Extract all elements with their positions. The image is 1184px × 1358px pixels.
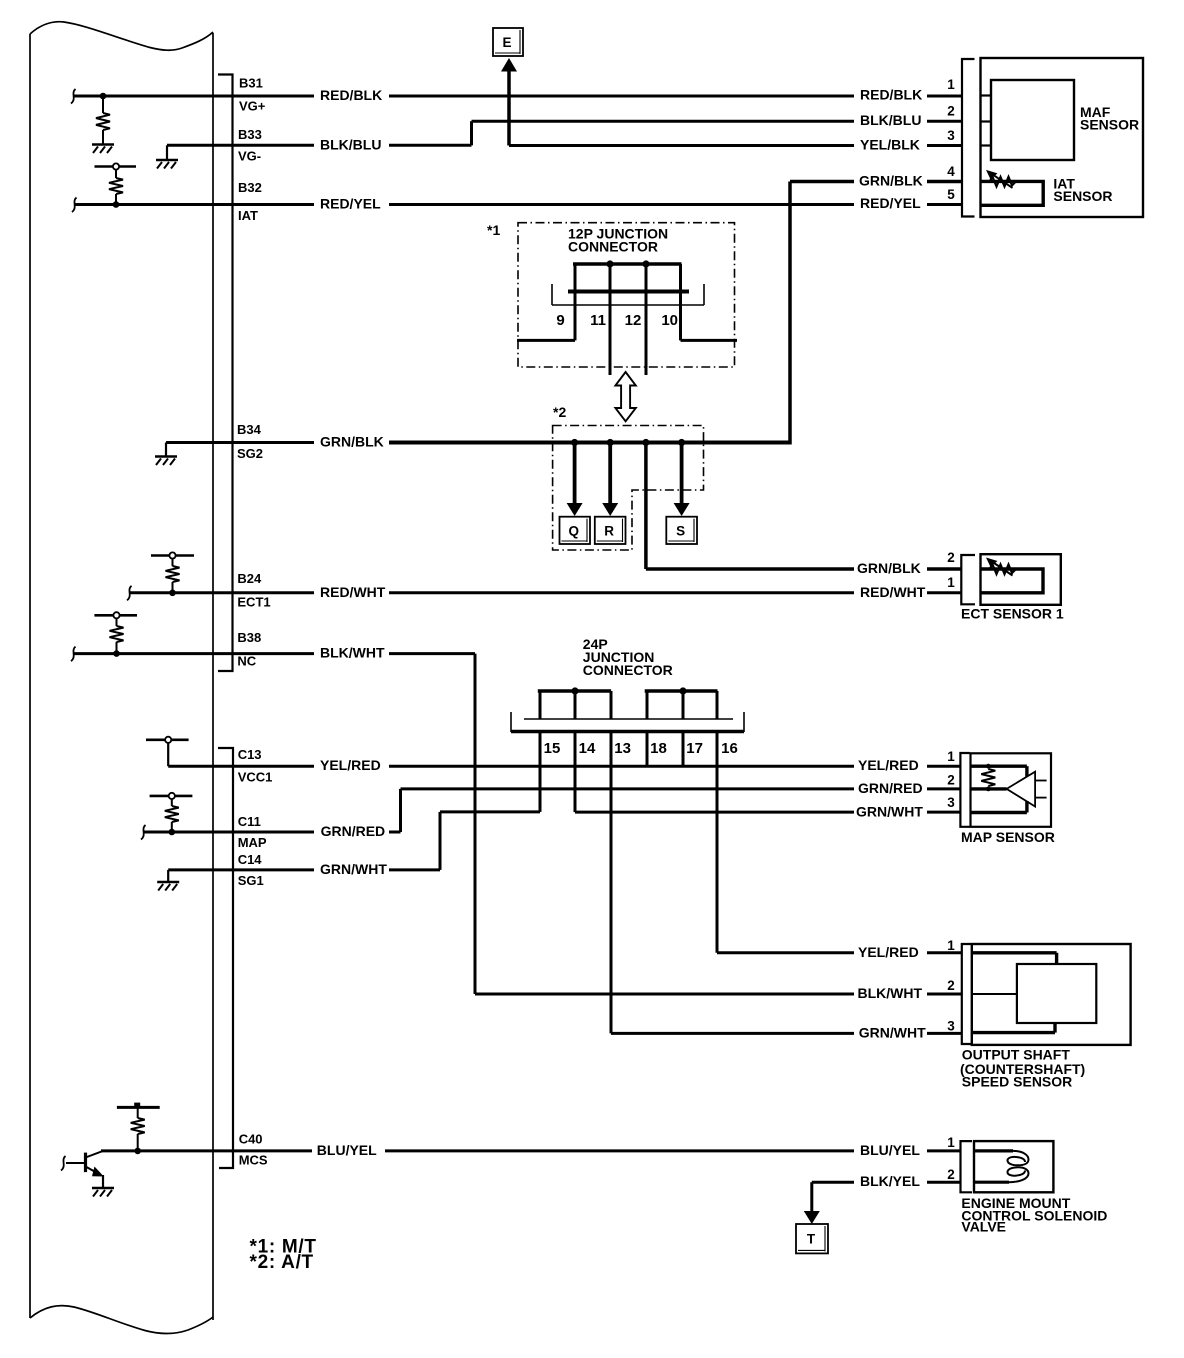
wire RED/BLK B31 to MAF pin 1 [73, 95, 961, 98]
svg-text:RED/WHT: RED/WHT [320, 584, 386, 600]
svg-text:*2: *2 [553, 404, 566, 420]
connector bracket solenoid [961, 1141, 973, 1192]
node rail pin 12 [642, 260, 649, 267]
svg-text:VG-: VG- [238, 149, 261, 164]
svg-text:9: 9 [556, 312, 564, 329]
12P pin 10 upper stem [679, 264, 682, 292]
24P pin 16 upper stem [716, 691, 719, 719]
ECT sensor 1 box [981, 554, 1061, 605]
svg-text:B38: B38 [237, 630, 261, 645]
internal 12V supply MCS [117, 1103, 160, 1108]
svg-text:BLK/WHT: BLK/WHT [320, 645, 385, 661]
svg-text:3: 3 [947, 128, 955, 143]
24P pin 15 lower stem [539, 733, 542, 812]
MAP internal resistor [981, 764, 995, 792]
svg-text:17: 17 [686, 740, 703, 757]
24P pin 18 upper stem [646, 691, 649, 719]
svg-text:1: 1 [947, 575, 955, 590]
node rail pin 17 [679, 687, 686, 694]
24P left top rail [538, 689, 611, 693]
transistor MCS driver [61, 1151, 104, 1188]
MAP internal supply path [971, 766, 1027, 777]
connector box S [666, 517, 697, 544]
svg-text:MCS: MCS [239, 1153, 268, 1168]
double arrow M/T-A/T swap [615, 372, 635, 421]
op-amp output stubs [1035, 781, 1047, 798]
ground SG2 link [165, 443, 167, 457]
wire YEL/BLK to MAF pin 3 [509, 144, 961, 147]
svg-text:ECT SENSOR 1: ECT SENSOR 1 [961, 606, 1064, 622]
24P pin 17 lower stem [682, 733, 685, 766]
svg-text:IAT: IAT [238, 208, 258, 223]
arrow to E [501, 58, 517, 72]
wire break slash B24 [127, 586, 132, 601]
wire GRN/RED C11 to MAP pin 2 [143, 789, 960, 832]
svg-text:10: 10 [661, 312, 678, 329]
ECM/PCM torn-edge strip [30, 22, 213, 1334]
MAF sensor outer box [981, 58, 1144, 217]
svg-text:1: 1 [947, 938, 955, 953]
node NC resistor tap [113, 650, 120, 657]
svg-text:*1: *1 [487, 222, 500, 238]
24P pin 14 lower stem [574, 733, 577, 812]
connector bracket MAP [960, 753, 969, 827]
svg-text:CONNECTOR: CONNECTOR [568, 239, 658, 255]
resistor ECT1 pull-up [166, 559, 180, 593]
label OUTPUT SHAFT (COUNTERSHAFT) SPEED SENSOR [960, 1046, 1085, 1089]
24P pin 15 upper stem [539, 691, 542, 719]
ECU connector bracket (C rows) [218, 748, 233, 1168]
svg-text:YEL/RED: YEL/RED [320, 757, 381, 773]
ground reference box T [796, 1224, 828, 1253]
node rail pin 14 [571, 687, 578, 694]
IAT sensor element [981, 181, 1043, 205]
op-amp MAP [1007, 772, 1036, 807]
svg-text:YEL/BLK: YEL/BLK [860, 137, 920, 153]
wire GRN/WHT C14 [168, 812, 540, 870]
svg-text:2: 2 [947, 1167, 955, 1182]
internal 5V supply MAP [150, 795, 193, 798]
node bus S tap [678, 439, 685, 446]
svg-text:E: E [502, 35, 511, 50]
12P connector top rail [573, 262, 682, 266]
wire from 12P pin 9 [517, 339, 575, 342]
node bus R tap [607, 439, 614, 446]
svg-text:ECT1: ECT1 [237, 594, 270, 609]
thermistor symbol IAT [989, 177, 1015, 187]
svg-text:BLK/YEL: BLK/YEL [860, 1173, 920, 1189]
24P pin 18 lower stem [646, 733, 649, 766]
svg-text:3: 3 [947, 1019, 955, 1034]
label 12P JUNCTION CONNECTOR [568, 226, 668, 255]
wire BLK/YEL solenoid pin 2 to T [812, 1182, 961, 1213]
ground reference box E [493, 28, 523, 56]
wire GRN/BLK B34 bus [166, 441, 790, 444]
svg-text:4: 4 [947, 164, 955, 179]
svg-text:RED/BLK: RED/BLK [320, 87, 382, 103]
svg-text:T: T [807, 1232, 816, 1247]
ground SG2 [155, 455, 177, 458]
svg-text:18: 18 [650, 740, 667, 757]
wire BLK/BLU B33 to MAF pin 2 [213, 121, 961, 145]
ground VG- [156, 159, 178, 162]
ECU connector bracket (B rows) [218, 75, 233, 672]
connector bracket MAF [962, 59, 975, 217]
arrow to S [674, 443, 690, 517]
svg-text:VCC1: VCC1 [238, 770, 273, 785]
24P pin 13 upper stem [610, 691, 613, 719]
svg-text:VG+: VG+ [239, 99, 266, 114]
svg-text:B34: B34 [237, 422, 262, 437]
label MAF SENSOR [1080, 104, 1139, 133]
svg-text:12: 12 [625, 312, 642, 329]
junction connector *1 (M/T) dash-dot outline [518, 223, 735, 367]
MAF pin 3 stub [981, 144, 992, 146]
ground SG1 [157, 881, 179, 884]
svg-text:*2: A/T: *2: A/T [250, 1252, 314, 1273]
svg-text:CONNECTOR: CONNECTOR [583, 662, 673, 678]
svg-text:C13: C13 [238, 747, 262, 762]
ground VG+ [92, 143, 114, 146]
label ENGINE MOUNT CONTROL SOLENOID VALVE [961, 1195, 1107, 1235]
svg-text:RED/BLK: RED/BLK [860, 87, 922, 103]
node VG+ resistor tap [100, 93, 107, 100]
svg-text:3: 3 [947, 795, 955, 810]
thermistor symbol ECT [989, 565, 1015, 575]
arrow to T [804, 1211, 820, 1224]
svg-text:GRN/RED: GRN/RED [858, 780, 923, 796]
ECT thermistor element [981, 569, 1044, 593]
svg-text:NC: NC [237, 654, 256, 669]
junction connector *2 (A/T) dash-dot outline [553, 426, 704, 551]
svg-text:GRN/BLK: GRN/BLK [857, 560, 921, 576]
svg-text:2: 2 [947, 104, 955, 119]
wire break slash B31 [71, 89, 76, 104]
wire break slash C11 [141, 825, 146, 840]
internal 5V supply NC [94, 614, 137, 617]
svg-text:GRN/WHT: GRN/WHT [859, 1024, 926, 1040]
MAP sensor box [971, 753, 1052, 827]
svg-text:GRN/WHT: GRN/WHT [320, 861, 387, 877]
internal 5V supply IAT [95, 165, 137, 168]
12P connector bar [552, 284, 704, 305]
wire GRN/BLK to ECT sensor pin 2 [646, 443, 961, 570]
svg-text:5: 5 [947, 187, 955, 202]
node bus Q tap [571, 439, 578, 446]
svg-text:C11: C11 [238, 814, 261, 829]
24P pin 13 lower stem [610, 733, 613, 1033]
wire YEL/RED C13 to MAP pin 1 [213, 765, 960, 768]
svg-text:BLK/WHT: BLK/WHT [858, 985, 923, 1001]
svg-text:B33: B33 [238, 127, 262, 142]
svg-text:C14: C14 [238, 852, 263, 867]
wire VG- to ground [167, 145, 213, 160]
wire break slash B38 [71, 647, 76, 662]
svg-text:2: 2 [947, 978, 955, 993]
svg-text:GRN/BLK: GRN/BLK [859, 173, 923, 189]
node MAP resistor tap [169, 829, 176, 836]
wire GRN/WHT to output shaft pin 3 [611, 1032, 962, 1035]
MAF pin 1 stub [981, 94, 992, 96]
svg-text:11: 11 [590, 312, 606, 329]
resistor VG+ pull-down [96, 96, 110, 144]
svg-text:BLK/BLU: BLK/BLU [320, 136, 381, 152]
svg-text:BLK/BLU: BLK/BLU [860, 112, 921, 128]
connector box R [595, 517, 626, 544]
MAF pin 2 stub [981, 120, 992, 122]
wire break slash B32 [72, 198, 77, 213]
wire GRN/BLK riser to MAF pin 4 [790, 182, 961, 445]
svg-text:B24: B24 [237, 571, 262, 586]
svg-text:2: 2 [947, 550, 955, 565]
svg-text:1: 1 [947, 749, 955, 764]
24P right top rail [645, 689, 718, 693]
wire BLK/WHT B38 [73, 654, 962, 994]
svg-text:1: 1 [947, 77, 955, 92]
svg-text:RED/WHT: RED/WHT [860, 584, 926, 600]
svg-text:OUTPUT SHAFT: OUTPUT SHAFT [962, 1046, 1071, 1062]
node MCS resistor tap [134, 1148, 141, 1155]
wire GRN/WHT to MAP pin 3 [575, 811, 960, 814]
node bus ECT tap [642, 439, 649, 446]
svg-text:14: 14 [579, 740, 596, 757]
svg-text:BLU/YEL: BLU/YEL [317, 1142, 377, 1158]
svg-text:GRN/WHT: GRN/WHT [856, 804, 923, 820]
output shaft pin 1 internal path [972, 953, 1057, 964]
label 24P JUNCTION CONNECTOR [583, 636, 673, 678]
internal 5V supply VCC1 [146, 738, 189, 741]
svg-text:BLU/YEL: BLU/YEL [860, 1142, 920, 1158]
MAF sensor inner element [991, 80, 1074, 160]
svg-text:GRN/BLK: GRN/BLK [320, 434, 384, 450]
svg-text:YEL/RED: YEL/RED [858, 944, 919, 960]
wire BLU/YEL C40 to solenoid pin 1 [101, 1149, 961, 1152]
wire from 12P pin 10 [681, 339, 738, 342]
connector bracket ECT [961, 555, 975, 604]
12P pin 11 lower stem [609, 293, 612, 375]
svg-text:C40: C40 [239, 1132, 263, 1147]
node ECT1 resistor tap [169, 590, 176, 597]
arrow to R [602, 443, 618, 517]
12P pin 12 lower stem [645, 293, 648, 375]
arrow to Q [567, 443, 583, 517]
svg-text:RED/YEL: RED/YEL [860, 195, 921, 211]
label IAT SENSOR [1053, 176, 1112, 204]
connector box Q [560, 517, 591, 544]
svg-text:1: 1 [947, 1135, 955, 1150]
svg-text:MAP: MAP [238, 835, 267, 850]
svg-text:S: S [676, 523, 685, 538]
wire RED/YEL B32 to MAF pin 5 [74, 203, 961, 206]
wire YEL/RED to output shaft pin 1 [717, 951, 962, 954]
svg-text:16: 16 [721, 740, 738, 757]
ground SG1 link [167, 870, 169, 882]
svg-text:R: R [604, 523, 614, 538]
solenoid coil [974, 1151, 1029, 1182]
svg-text:MAP SENSOR: MAP SENSOR [961, 829, 1055, 845]
12P pin 12 upper stem [645, 264, 648, 292]
svg-text:SG2: SG2 [237, 446, 263, 461]
MAP internal signal path [971, 787, 1007, 790]
svg-text:RED/YEL: RED/YEL [320, 196, 381, 212]
svg-text:2: 2 [947, 772, 955, 787]
output shaft sensor inner element [1017, 964, 1096, 1023]
wire RED/WHT B24 to ECT pin 1 [129, 591, 961, 594]
svg-text:B31: B31 [239, 76, 263, 91]
12P pin 9 upper stem [574, 264, 577, 292]
12P pin 10 lower stem [679, 293, 682, 340]
svg-text:13: 13 [614, 740, 631, 757]
output shaft pin 3 internal path [972, 1023, 1055, 1033]
connector bracket output shaft [962, 944, 971, 1044]
svg-text:SG1: SG1 [238, 873, 264, 888]
output shaft sensor outer box [972, 944, 1131, 1045]
resistor NC pull-up [110, 618, 124, 653]
output shaft pin 2 internal path [972, 993, 1017, 995]
24P pin 14 upper stem [574, 691, 577, 719]
engine mount control solenoid valve box [974, 1141, 1053, 1192]
svg-text:B32: B32 [238, 180, 262, 195]
12P pin 9 lower stem [574, 293, 577, 340]
svg-text:SPEED SENSOR: SPEED SENSOR [962, 1073, 1072, 1089]
resistor MCS pull-up [131, 1107, 145, 1151]
svg-text:Q: Q [568, 523, 579, 538]
svg-text:GRN/RED: GRN/RED [321, 823, 386, 839]
24P connector bar [511, 712, 744, 732]
MAP internal ground path [971, 801, 1027, 813]
supply link VCC1 [168, 743, 213, 766]
svg-text:SENSOR: SENSOR [1080, 117, 1139, 133]
internal 5V supply ECT1 [151, 554, 194, 557]
svg-text:15: 15 [544, 740, 561, 757]
svg-text:YEL/RED: YEL/RED [858, 757, 919, 773]
node rail pin 11 [606, 260, 613, 267]
12P pin 11 upper stem [609, 264, 612, 292]
ground transistor emitter [92, 1187, 114, 1190]
svg-text:SENSOR: SENSOR [1053, 188, 1112, 204]
svg-text:VALVE: VALVE [961, 1219, 1006, 1235]
24P pin 16 lower stem [716, 733, 719, 953]
resistor IAT pull-up [109, 170, 123, 205]
resistor MAP pull-up [165, 799, 179, 832]
24P pin 17 upper stem [682, 691, 685, 719]
node IAT resistor tap [113, 201, 120, 208]
